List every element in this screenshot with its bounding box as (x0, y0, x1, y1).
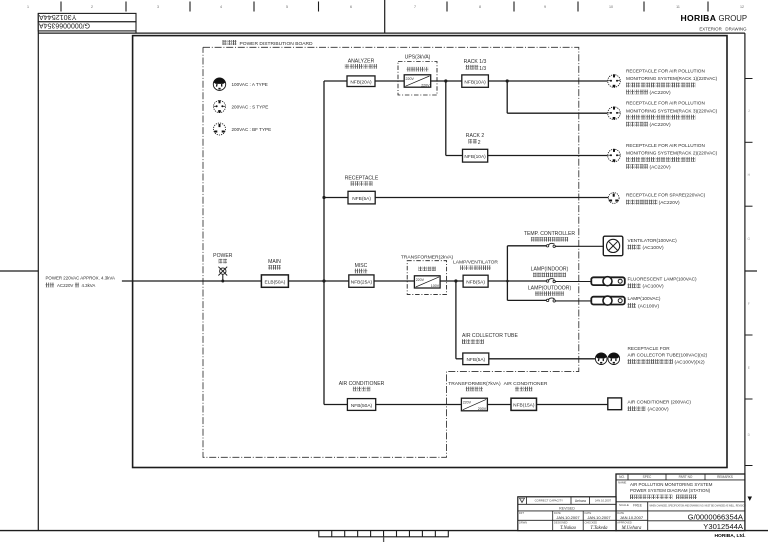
air conditioner unit box (608, 398, 622, 410)
junction main feed on bus (322, 279, 325, 282)
label POWER 220VAC APPROX 4.3kVA (46, 275, 115, 288)
label UPS(3kVA) (405, 54, 431, 60)
svg-text:AIR COLLECTOR TUBE(100VAC)(x2): AIR COLLECTOR TUBE(100VAC)(x2) (628, 353, 708, 358)
svg-text:LAMP(100VAC): LAMP(100VAC) (628, 296, 661, 301)
wire NFB10A rack2 to receptacle (488, 155, 608, 157)
svg-text:CHECKED: CHECKED (585, 521, 598, 525)
svg-text:MISC: MISC (355, 263, 368, 269)
svg-text:8: 8 (479, 5, 481, 9)
label FLUORESCENT LAMP(100VAC) (628, 277, 698, 290)
svg-text:12: 12 (740, 5, 744, 9)
receptacle spare (608, 193, 619, 204)
label RACK 2 (466, 133, 485, 146)
label TEMP. CONTROLLER (524, 231, 575, 241)
breaker NFB(50A) air conditioner (347, 399, 375, 411)
svg-text:RECEPTACLE FOR SPARE(220VAC): RECEPTACLE FOR SPARE(220VAC) (626, 193, 706, 198)
label LAMP(OUTDOOR) (528, 285, 572, 295)
wire to temp controller switch (507, 245, 546, 247)
title block left section frame (518, 497, 648, 531)
svg-text:(AC220V): (AC220V) (650, 90, 671, 96)
svg-text:NFB(25A): NFB(25A) (351, 280, 373, 286)
legend receptacle 200VAC S TYPE (214, 100, 226, 112)
svg-text:RACK 1/3: RACK 1/3 (464, 59, 487, 65)
svg-text:POWER 220VAC APPROX. 4.3kVA: POWER 220VAC APPROX. 4.3kVA (46, 275, 115, 280)
svg-text:220V: 220V (406, 77, 415, 81)
svg-text:5: 5 (286, 5, 288, 9)
wire switch to ventilator (555, 245, 604, 247)
outer frame bottom edge (0, 530, 768, 532)
power terminal symbol (218, 267, 227, 283)
svg-text:AIR POLLUTION MONITORING SYSTE: AIR POLLUTION MONITORING SYSTEM (630, 482, 713, 487)
wire down to rack3 row (506, 81, 508, 113)
legend receptacle 100VAC A TYPE (213, 78, 225, 90)
svg-text:6: 6 (350, 5, 352, 9)
svg-text:SPEC: SPEC (643, 475, 652, 479)
svg-text:NFB(10A): NFB(10A) (464, 154, 486, 160)
svg-text:4.3kVA: 4.3kVA (82, 283, 96, 288)
label receptacle rack1 (626, 69, 718, 96)
wire NFB5A to spare receptacle (375, 197, 608, 199)
main distribution bus (323, 81, 325, 405)
svg-text:AIR CONDITIONER (200VAC): AIR CONDITIONER (200VAC) (628, 399, 692, 404)
svg-text:NFB(5A): NFB(5A) (466, 280, 485, 286)
wire NFB25A to transformer 2kVA (374, 280, 414, 282)
svg-text:Y3012544A: Y3012544A (39, 13, 77, 22)
svg-text:9: 9 (544, 5, 546, 9)
label MISC 補機用 (355, 263, 368, 273)
junction 100V split to air collector (454, 279, 457, 282)
svg-text:F: F (748, 302, 750, 306)
drawing number divider (648, 520, 745, 522)
label 無停電電源 inside UPS (407, 67, 429, 72)
label RACK 1/3 (464, 59, 487, 72)
right margin zone letters (748, 109, 751, 437)
wire to NFB10A rack2 (446, 155, 463, 157)
svg-text:POWER SYSTEM DIAGRAM (STATION): POWER SYSTEM DIAGRAM (STATION) (630, 488, 711, 493)
wire NFB10A to rack1 receptacle (488, 80, 607, 82)
svg-text:Uehara: Uehara (575, 499, 586, 503)
breaker NFB(5A) receptacle (348, 191, 375, 204)
svg-text:(AC220V): (AC220V) (659, 200, 680, 206)
svg-text:NFB(50A): NFB(50A) (351, 403, 373, 409)
label receptacle rack2 (626, 143, 718, 170)
transformer(2kVA) dashed enclosure (407, 261, 446, 295)
transformer box 220V/200V (7kVA) (461, 398, 487, 411)
svg-text:(AC100V): (AC100V) (638, 303, 659, 309)
svg-text:SCALE: SCALE (619, 503, 629, 507)
label AIR COLLECTOR TUBE (462, 333, 518, 344)
revision triangle marker (748, 497, 753, 502)
breaker NFB(25A) misc (349, 275, 374, 287)
receptacle air collector x2 (A type) (595, 353, 607, 365)
svg-text:(AC100V): (AC100V) (643, 284, 664, 290)
switch lamp outdoor (546, 298, 555, 302)
wire NFB5A to air collector receptacles (489, 358, 596, 360)
scale row (619, 502, 648, 531)
svg-text:MONITORING SYSTEM(RACK 2)(220V: MONITORING SYSTEM(RACK 2)(220VAC) (626, 151, 718, 156)
wire bus to NFB50A air conditioner (324, 404, 347, 406)
svg-text:MONITORING SYSTEM(RACK 1)(220V: MONITORING SYSTEM(RACK 1)(220VAC) (626, 76, 718, 81)
svg-text:HORIBA: HORIBA (681, 13, 717, 23)
top ruler zone ticks (61, 2, 708, 12)
label TRANSFORMER(2kVA) (401, 254, 454, 260)
ventilator symbol (603, 236, 623, 256)
svg-text:REMARKS: REMARKS (717, 475, 733, 479)
breaker NFB(15A) air conditioner (511, 398, 537, 410)
bottom fold comb scale (319, 531, 449, 542)
svg-text:FLUORESCENT LAMP(100VAC): FLUORESCENT LAMP(100VAC) (628, 277, 698, 282)
title block header texts (619, 475, 733, 479)
svg-text:UPS(3kVA): UPS(3kVA) (405, 54, 431, 60)
svg-text:JAN.10.2007: JAN.10.2007 (620, 515, 644, 520)
svg-text:AC220V: AC220V (57, 283, 73, 288)
receptacle rack2 (S type) (608, 149, 621, 162)
svg-text:APPROVED: APPROVED (617, 521, 632, 525)
wire switch to fluorescent lamp (555, 281, 592, 283)
svg-text:RECEPTACLE FOR AIR POLLUTION: RECEPTACLE FOR AIR POLLUTION (626, 101, 705, 106)
label spare receptacle (626, 193, 706, 206)
svg-text:JAN.10,2007: JAN.10,2007 (595, 499, 612, 503)
label ANALYZER (345, 58, 377, 68)
legend receptacle 200VAC BF TYPE (214, 123, 226, 135)
svg-text:(AC220V): (AC220V) (650, 164, 671, 170)
svg-text:NAME: NAME (618, 481, 626, 485)
receptacle rack1 (S type) (608, 74, 621, 87)
svg-text:NFB(20A): NFB(20A) (350, 80, 372, 86)
wire transformer to NFB15A (487, 404, 511, 406)
right margin center mark (745, 270, 757, 272)
inner drawing border (133, 36, 727, 468)
svg-text:CORRECT CAPACITY: CORRECT CAPACITY (535, 499, 563, 503)
svg-text:NFB(5A): NFB(5A) (466, 357, 485, 363)
svg-text:DFT: DFT (519, 511, 524, 515)
svg-text:ELB(50A): ELB(50A) (265, 280, 286, 286)
svg-text:1: 1 (27, 5, 29, 9)
wire to rack3 receptacle (507, 112, 607, 114)
svg-text:FREE: FREE (633, 504, 643, 508)
junction on bus at receptacle row (322, 196, 325, 199)
label TRANSFORMER(7kVA) (448, 381, 501, 391)
wire NFB20A to UPS (375, 80, 404, 82)
svg-text:VENTILATOR(100VAC): VENTILATOR(100VAC) (628, 238, 678, 243)
rotated drawing number Y3012544A (39, 13, 77, 22)
UPS transformer box 220V/220V (404, 75, 431, 88)
outdoor lamp symbol (591, 296, 625, 305)
svg-text:TRANSFORMER(2kVA): TRANSFORMER(2kVA) (401, 254, 454, 260)
svg-text:NFB(10A): NFB(10A) (464, 79, 486, 85)
label AIR CONDITIONER left (339, 381, 385, 391)
svg-text:220V: 220V (463, 400, 472, 404)
svg-text:Y3012544A: Y3012544A (703, 522, 744, 531)
wire junction down to rack2 row (445, 81, 447, 156)
title block right section frame (616, 474, 745, 531)
breaker NFB(10A) rack 1/3 (462, 75, 489, 87)
outer frame left edge (37, 13, 39, 530)
svg-text:WHEN CHANGED, SPECIFICATION AN: WHEN CHANGED, SPECIFICATION AND DRAWING … (650, 504, 747, 507)
svg-text:AIR CONDITIONER: AIR CONDITIONER (339, 381, 385, 387)
svg-text:11: 11 (676, 5, 680, 9)
vertical wire joining temp/indoor/outdoor rows (506, 246, 508, 301)
breaker NFB(5A) lamp/ventilator (463, 275, 488, 287)
breaker ELB(50A) main (261, 275, 288, 287)
rotated drawing number G/0000066354A (39, 22, 90, 29)
right margin zone ticks (745, 79, 753, 466)
wire switch to outdoor lamp (555, 300, 592, 302)
svg-text:(AC100V)(X2): (AC100V)(X2) (675, 359, 706, 365)
label AIR CONDITIONER (200VAC) (628, 399, 692, 412)
switch temp controller (546, 243, 555, 247)
transformer box 220V/100V (414, 276, 440, 288)
svg-text:HORIBA, Ltd.: HORIBA, Ltd. (715, 533, 747, 539)
svg-text:200VAC : S TYPE: 200VAC : S TYPE (232, 105, 269, 110)
svg-text:TEMP. CONTROLLER: TEMP. CONTROLLER (524, 231, 575, 237)
svg-text:220V: 220V (416, 278, 425, 282)
svg-text:T.Nakao: T.Nakao (560, 526, 577, 531)
table to frame connector (135, 31, 137, 33)
fluorescent lamp symbol (591, 277, 625, 286)
svg-text:LAMP(INDOOR): LAMP(INDOOR) (531, 267, 569, 273)
svg-text:AIR COLLECTOR TUBE: AIR COLLECTOR TUBE (462, 333, 518, 339)
svg-text:220V: 220V (421, 83, 430, 87)
wire down to air collector tube circuit (455, 281, 457, 359)
svg-text:POWER: POWER (213, 253, 233, 259)
svg-text:2: 2 (478, 140, 481, 146)
svg-text:10: 10 (609, 5, 613, 9)
svg-text:NFB(15A): NFB(15A) (513, 403, 535, 409)
receptacle rack3 (S type) (608, 107, 621, 120)
title text AIR POLLUTION MONITORING SYSTEM (630, 482, 713, 493)
svg-text:EXTERIOR DRAWING: EXTERIOR DRAWING (699, 26, 747, 31)
svg-text:M.Uehara: M.Uehara (621, 526, 642, 531)
svg-text:RECEPTACLE FOR AIR POLLUTION: RECEPTACLE FOR AIR POLLUTION (626, 69, 705, 74)
svg-text:MONITORING SYSTEM(RACK 3)(220V: MONITORING SYSTEM(RACK 3)(220VAC) (626, 108, 718, 113)
top-left drawing number table (38, 13, 136, 21)
date cells (519, 511, 644, 520)
wire to outdoor lamp switch (507, 299, 546, 301)
svg-text:1/3: 1/3 (479, 66, 486, 72)
svg-text:(AC100V): (AC100V) (643, 245, 664, 251)
top ruler zone numbers (27, 5, 744, 9)
svg-text:REVISED: REVISED (559, 506, 575, 510)
UPS(3kVA) unit dashed enclosure (398, 62, 437, 96)
board label 配電盤 POWER DISTRIBUTION BOARD (223, 40, 314, 47)
wire bus to NFB20A (324, 80, 347, 82)
outer frame right edge (744, 33, 746, 530)
title japanese line (630, 495, 697, 499)
junction lamp circuits (506, 280, 509, 283)
wire ELB to bus (288, 280, 348, 282)
label MAIN 主電源 (268, 259, 281, 269)
svg-text:200V: 200V (478, 407, 487, 411)
svg-text:T.Takeda: T.Takeda (590, 526, 608, 531)
approval stamp row (520, 497, 612, 505)
breaker NFB(5A) air collector tube (463, 353, 489, 365)
svg-text:DRWN: DRWN (519, 521, 527, 525)
svg-text:RECEPTACLE FOR AIR POLLUTION: RECEPTACLE FOR AIR POLLUTION (626, 143, 705, 148)
wire UPS to junction and NFB10A rack1/3 (431, 80, 462, 82)
svg-text:2: 2 (91, 5, 93, 9)
svg-text:G/0000066354A: G/0000066354A (688, 512, 744, 521)
svg-text:G/0000066354A: G/0000066354A (39, 22, 90, 29)
svg-text:3: 3 (157, 5, 159, 9)
wire transformer to NFB5A lamp/vent (440, 280, 463, 282)
wire to NFB5A air collector (456, 358, 463, 360)
svg-text:TRANSFORMER(7kVA): TRANSFORMER(7kVA) (448, 381, 501, 387)
svg-text:(AC220V): (AC220V) (650, 122, 671, 128)
label LAMP/VENTILATOR (453, 260, 498, 270)
svg-text:LAMP/VENTILATOR: LAMP/VENTILATOR (453, 260, 498, 266)
label トランス inside (418, 267, 435, 271)
svg-text:4: 4 (220, 5, 222, 9)
g number row divider (648, 510, 745, 512)
label LAMP(INDOOR) (531, 267, 569, 277)
label receptacle for air collector tube (628, 346, 708, 365)
svg-text:GROUP: GROUP (719, 14, 748, 23)
junction after UPS (444, 79, 447, 82)
top center fold tick (384, 0, 386, 33)
incoming power wire (122, 280, 262, 282)
svg-text:MAIN: MAIN (268, 259, 281, 265)
label RECEPTACLE (345, 175, 379, 185)
svg-text:AIR CONDITIONER: AIR CONDITIONER (504, 381, 548, 387)
wire NFB50A to transformer 7kVA (376, 404, 462, 406)
wire NFB5A to lamp switch row (488, 280, 546, 282)
signature cells (519, 521, 642, 531)
outer frame top edge (38, 32, 745, 34)
svg-text:NO.: NO. (619, 475, 625, 479)
svg-text:JAN.10.2007: JAN.10.2007 (556, 515, 580, 520)
svg-text:7: 7 (414, 5, 416, 9)
wire NFB15A to air conditioner unit (537, 404, 608, 406)
label VENTILATOR(100VAC) (628, 238, 678, 251)
label POWER 電源 (213, 253, 233, 263)
svg-text:ANALYZER: ANALYZER (348, 58, 375, 64)
svg-text:RECEPTACLE FOR: RECEPTACLE FOR (628, 346, 671, 351)
svg-text:E: E (748, 366, 750, 370)
label receptacle rack3 (626, 101, 718, 128)
svg-text:JAN.10.2007: JAN.10.2007 (587, 515, 611, 520)
breaker NFB(10A) rack 2 (463, 149, 488, 162)
svg-text:100VAC : A TYPE: 100VAC : A TYPE (232, 82, 268, 87)
junction rack1/rack3 split (506, 79, 509, 82)
label LAMP(100VAC) (628, 296, 661, 309)
svg-text:NFB(5A): NFB(5A) (352, 196, 371, 202)
svg-text:(AC200V): (AC200V) (648, 407, 669, 413)
wire bus to NFB5A receptacle circuit (324, 197, 348, 199)
svg-text:RECEPTACLE: RECEPTACLE (345, 175, 379, 181)
label AIR CONDITIONER right (504, 381, 548, 391)
svg-text:LAMP(OUTDOOR): LAMP(OUTDOOR) (528, 285, 572, 291)
switch lamp indoor (546, 279, 555, 283)
left margin center mark (0, 270, 38, 272)
svg-text:100V: 100V (431, 284, 440, 288)
svg-text:PART NO: PART NO (679, 475, 693, 479)
power distribution board boundary (dash-dot) (203, 47, 579, 457)
HORIBA GROUP logo (681, 13, 748, 23)
svg-text:RACK 2: RACK 2 (466, 133, 485, 139)
svg-text:DESIGNED: DESIGNED (554, 521, 568, 525)
svg-text:200VAC : BF TYPE: 200VAC : BF TYPE (232, 127, 272, 132)
breaker NFB(20A) analyzer (347, 76, 375, 87)
svg-text:POWER DISTRIBUTION BOARD: POWER DISTRIBUTION BOARD (240, 41, 314, 47)
